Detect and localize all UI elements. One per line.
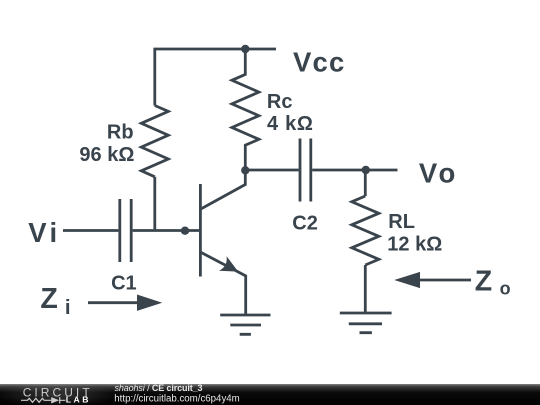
node label Vi [28, 217, 60, 248]
svg-text:shaohsi / CE circuit_3: shaohsi / CE circuit_3 [115, 383, 203, 393]
svg-text:http://circuitlab.com/c6p4y4m: http://circuitlab.com/c6p4y4m [114, 393, 239, 404]
value label C1 [111, 272, 137, 294]
svg-text:Rc: Rc [267, 91, 293, 113]
wire RL to ground [364, 265, 367, 313]
label Zi [40, 283, 70, 319]
resistor Rb [141, 106, 168, 177]
wire Rb bottom to input node [153, 177, 156, 231]
resistor RL [352, 196, 379, 265]
svg-text:Rb: Rb [107, 121, 134, 143]
transistor Q1 base bar [199, 184, 202, 277]
transistor Q1 emitter lead [201, 252, 246, 315]
ground left [220, 315, 270, 334]
svg-text:Vo: Vo [419, 157, 459, 188]
wire Vi input to C1 [63, 229, 118, 232]
resistor Rc [232, 49, 259, 170]
svg-text:o: o [500, 279, 511, 299]
svg-text:LAB: LAB [66, 395, 91, 405]
svg-text:Vcc: Vcc [293, 47, 346, 78]
svg-text:i: i [65, 296, 71, 319]
value label 12 kOhm [387, 233, 442, 255]
node label Vo [419, 157, 459, 188]
wire C1 to base [133, 229, 199, 232]
footer attribution line 1 [114, 383, 239, 405]
value label RL [388, 211, 415, 233]
node junction dot collector [241, 166, 249, 174]
svg-text:C2: C2 [292, 212, 318, 234]
wire Zo arrow shaft [418, 279, 471, 282]
logo LAB text [66, 395, 91, 405]
svg-text:4 kΩ: 4 kΩ [267, 113, 314, 135]
wire C2 to output node [312, 169, 397, 172]
value label Rc [267, 91, 293, 113]
node label Vcc [293, 47, 346, 78]
svg-text:Z: Z [475, 266, 492, 298]
value label C2 [292, 212, 318, 234]
svg-text:Vi: Vi [28, 217, 60, 248]
capacitor C1 [120, 199, 131, 262]
value label 96 kOhm [79, 144, 134, 166]
transistor Q1 collector lead [201, 170, 245, 209]
svg-text:Z: Z [40, 283, 57, 315]
wire collector to C2 [245, 169, 298, 172]
footer bar [0, 382, 540, 405]
wire Zi arrow shaft [88, 301, 140, 304]
capacitor C2 [300, 139, 311, 202]
node junction dot output [362, 166, 370, 174]
value label 4 kOhm [267, 113, 314, 135]
ground right [340, 313, 392, 333]
wire output node to RL [364, 170, 367, 196]
arrowhead Zo [394, 272, 420, 288]
logo resistor squiggle and diode [21, 397, 65, 403]
logo diode triangle [51, 397, 59, 403]
svg-text:C1: C1 [111, 272, 137, 294]
svg-text:96 kΩ: 96 kΩ [79, 144, 134, 166]
label Zo [475, 266, 511, 299]
svg-text:12 kΩ: 12 kΩ [387, 233, 442, 255]
logo CIRCUIT text [23, 385, 93, 399]
wire Vcc top rail [155, 49, 276, 106]
transistor Q1 emitter arrowhead [219, 256, 238, 271]
arrowhead Zi [137, 295, 162, 311]
node junction dot base [181, 227, 189, 235]
value label Rb [107, 121, 134, 143]
svg-text:RL: RL [388, 211, 415, 233]
node junction dot Vcc rail [241, 45, 249, 53]
